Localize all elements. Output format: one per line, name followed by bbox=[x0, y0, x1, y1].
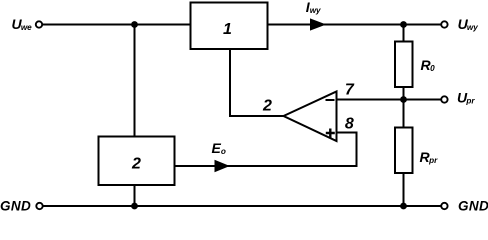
wire block 1 output to Uwy bbox=[268, 24, 441, 26]
wire Rpr bottom to GND bbox=[403, 173, 405, 206]
minus input mark bbox=[326, 99, 335, 101]
block 1 bbox=[191, 3, 268, 50]
wire pin 8 to Eo bbox=[337, 133, 357, 167]
svg-text:GND: GND bbox=[0, 198, 31, 212]
junction Uwy node bbox=[400, 21, 407, 28]
GND rail bbox=[43, 205, 441, 207]
wire block 2 bottom to GND bbox=[134, 185, 136, 206]
resistor Rpr bbox=[395, 128, 413, 174]
terminal GND left bbox=[36, 203, 42, 209]
junction GND block 2 bbox=[131, 203, 138, 210]
resistor R0 bbox=[395, 42, 413, 88]
terminal Upr bbox=[441, 96, 447, 102]
terminal Uwe bbox=[36, 21, 42, 27]
svg-text:7: 7 bbox=[345, 82, 355, 99]
svg-text:1: 1 bbox=[223, 21, 232, 38]
junction Upr node bbox=[400, 96, 407, 103]
terminal GND right bbox=[441, 203, 447, 209]
arrow Iwy bbox=[310, 18, 326, 30]
svg-text:2: 2 bbox=[131, 156, 141, 173]
wire R0 bottom to Upr node bbox=[403, 87, 405, 100]
wire Eo from block 2 bbox=[175, 165, 358, 167]
plus input mark bbox=[326, 129, 335, 138]
svg-text:8: 8 bbox=[345, 116, 354, 133]
wire Uwe to block 1 bbox=[43, 24, 191, 26]
junction input node bbox=[131, 21, 138, 28]
wire block 1 bottom to op-amp input bbox=[230, 49, 284, 116]
arrow Eo bbox=[215, 160, 230, 172]
wire Upr node to Rpr bbox=[403, 100, 405, 128]
block 2 bbox=[99, 137, 175, 186]
wire pin 7 to Upr terminal bbox=[337, 99, 441, 101]
wire input node down to block 2 bbox=[134, 25, 136, 137]
svg-text:2: 2 bbox=[262, 98, 272, 115]
junction GND Rpr bbox=[400, 203, 407, 210]
terminal Uwy bbox=[441, 21, 447, 27]
svg-text:GND: GND bbox=[458, 198, 488, 212]
wire Uwy node to R0 bbox=[403, 25, 405, 42]
op-amp U2 bbox=[284, 92, 337, 142]
